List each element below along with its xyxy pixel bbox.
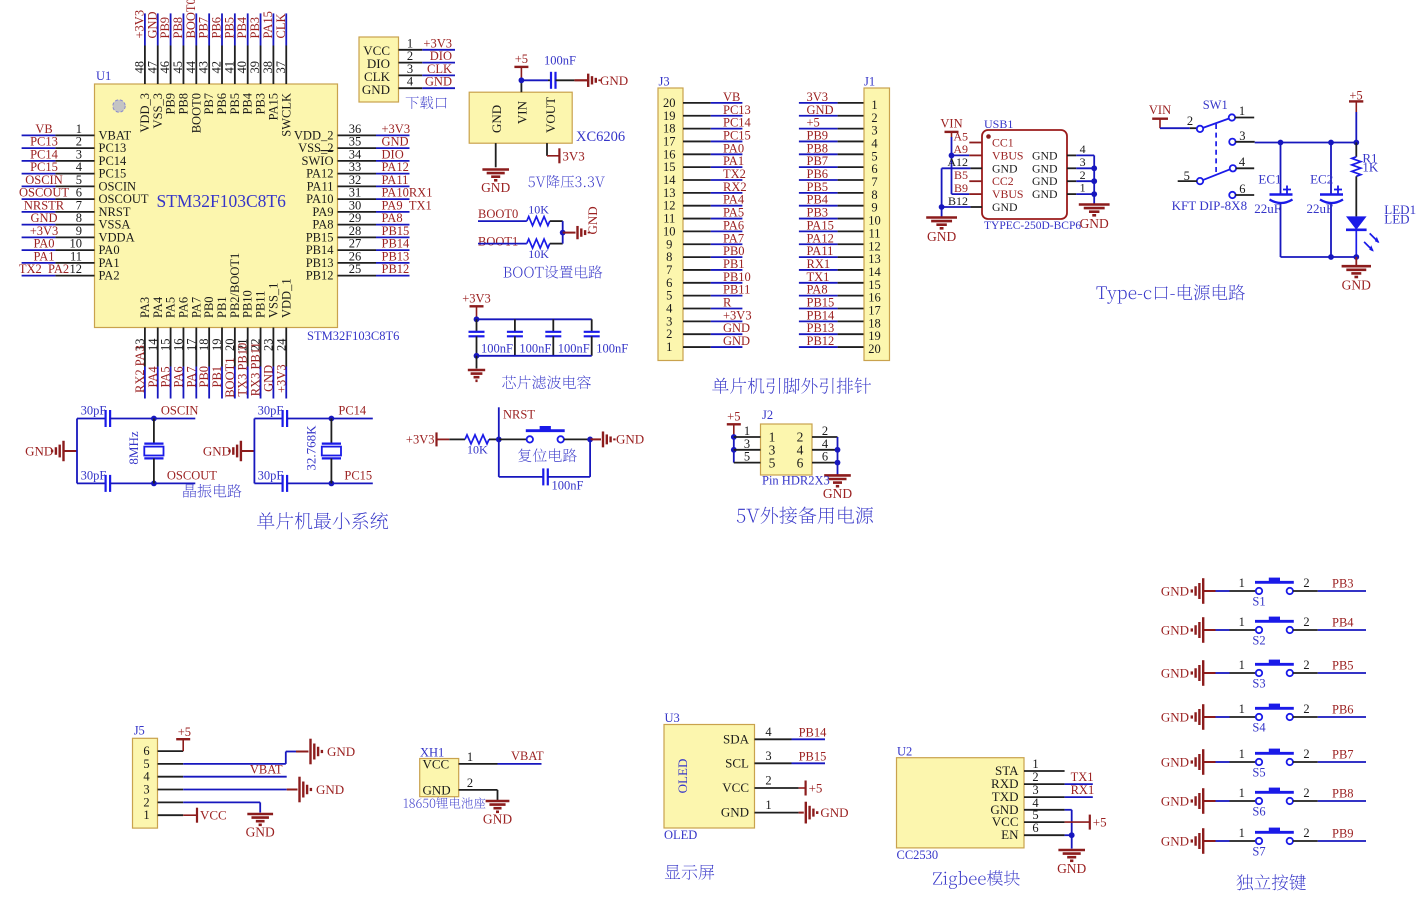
wire SW1 pin 3 to +5 rail bbox=[1235, 140, 1359, 146]
capacitor EC2 22uF bbox=[1307, 143, 1344, 258]
svg-text:GND: GND bbox=[1032, 148, 1058, 162]
connector: download port (SWD) body bbox=[359, 37, 399, 102]
USB1 pin B9 (VBUS) bbox=[954, 181, 1023, 201]
wire S7 to net PB9 bbox=[1293, 827, 1366, 842]
svg-text:4: 4 bbox=[1239, 155, 1246, 169]
module U2 CC2530 body bbox=[897, 745, 1025, 848]
wire to net OSCIN bbox=[151, 404, 198, 422]
label Pin HDR2X3 bbox=[762, 474, 830, 488]
wire crystal 32.768K left rail bbox=[253, 419, 255, 484]
U2 pin 1 wire (STA) bbox=[1024, 757, 1065, 771]
U1 pin 33 (PA12) wire, net PA12 bbox=[306, 160, 409, 181]
caption: download port bbox=[406, 96, 447, 109]
svg-text:GND: GND bbox=[483, 811, 512, 826]
svg-text:10K: 10K bbox=[528, 247, 549, 261]
U1 pin 45 (PB8) wire, net PB8 bbox=[171, 13, 191, 114]
svg-text:32.768K: 32.768K bbox=[303, 425, 318, 471]
power port +5 at U2 bbox=[1090, 815, 1107, 830]
capacitor 100nF (reset) bbox=[499, 439, 590, 492]
svg-text:PB12: PB12 bbox=[807, 334, 835, 348]
svg-text:A9: A9 bbox=[953, 142, 968, 156]
power +5 at XC6206 VIN bbox=[514, 52, 528, 80]
svg-text:4: 4 bbox=[1080, 142, 1086, 156]
svg-text:VOUT: VOUT bbox=[543, 97, 558, 133]
connector XH1 body bbox=[420, 746, 459, 798]
svg-text:VBUS: VBUS bbox=[992, 148, 1023, 162]
crystal 32.768K bbox=[303, 419, 341, 484]
svg-text:GND: GND bbox=[992, 200, 1018, 214]
svg-text:SDA: SDA bbox=[723, 731, 750, 746]
svg-text:GND: GND bbox=[1342, 278, 1371, 293]
svg-text:LED: LED bbox=[1384, 212, 1409, 227]
svg-text:SW1: SW1 bbox=[1203, 98, 1228, 112]
svg-text:KFT DIP-8X8: KFT DIP-8X8 bbox=[1172, 198, 1247, 213]
U1 pin 24 (VDD_1) wire, net +3V3 bbox=[274, 278, 293, 398]
svg-text:1: 1 bbox=[1080, 181, 1086, 195]
U2 pin 3 wire net RX1 bbox=[1024, 783, 1094, 797]
wire A12/B12 to ground bbox=[939, 168, 971, 217]
svg-text:30pF: 30pF bbox=[81, 469, 107, 483]
svg-text:2: 2 bbox=[1303, 615, 1309, 629]
svg-text:CC2: CC2 bbox=[992, 174, 1014, 188]
net label BOOT0 bbox=[478, 207, 518, 221]
svg-text:3: 3 bbox=[1239, 129, 1245, 143]
J1 pin 13 wire, net PA11 bbox=[799, 244, 881, 266]
svg-text:GND: GND bbox=[616, 432, 644, 447]
J3 pin 11 wire, net PA5 bbox=[663, 206, 744, 226]
J1 pin 16 wire, net PA8 bbox=[799, 283, 881, 305]
svg-text:4: 4 bbox=[407, 75, 414, 89]
svg-text:2: 2 bbox=[1080, 168, 1086, 182]
svg-text:PB14: PB14 bbox=[799, 725, 828, 739]
svg-text:100nF: 100nF bbox=[519, 342, 551, 356]
ground GND below XC6206 bbox=[481, 170, 510, 195]
U1 pin 10 (PA0) wire, net PA0 bbox=[22, 237, 120, 258]
J1 pin 3 wire, net +5 bbox=[799, 116, 878, 138]
USB1 pin B5 (CC2) bbox=[954, 168, 1014, 188]
wire XC6206 VOUT to 3V3 bbox=[547, 143, 559, 156]
U1 pin 34 (SWIO) wire, net DIO bbox=[302, 147, 410, 168]
U1 pin 25 (PB12) wire, net PB12 bbox=[306, 262, 410, 283]
svg-text:Pin HDR2X3: Pin HDR2X3 bbox=[762, 474, 830, 488]
power +5 at J2 bbox=[727, 409, 741, 437]
U2 pin 4 wire (GND) to EN node bbox=[1024, 796, 1072, 835]
svg-text:3: 3 bbox=[1080, 155, 1086, 169]
ground below filter caps bbox=[468, 356, 485, 381]
svg-text:+5: +5 bbox=[809, 781, 823, 796]
wire BOOT junction bbox=[560, 221, 576, 244]
wire SW1 pin 5 bbox=[1178, 180, 1197, 182]
svg-text:VBAT: VBAT bbox=[250, 763, 283, 777]
power +5 at rail bbox=[1349, 89, 1363, 143]
svg-text:3V3: 3V3 bbox=[562, 148, 584, 163]
svg-text:30pF: 30pF bbox=[258, 404, 284, 418]
svg-text:1: 1 bbox=[1239, 786, 1245, 800]
svg-text:PB6: PB6 bbox=[1332, 703, 1354, 717]
J1 pin 8 wire, net PB5 bbox=[799, 180, 878, 202]
regulator XC6206 body bbox=[469, 92, 572, 143]
svg-text:20: 20 bbox=[868, 342, 881, 356]
U1 pin 2 (PC13) wire, net PC13 bbox=[22, 135, 127, 156]
wire EC bottom rail bbox=[1281, 254, 1360, 260]
wire crystal 8MHz left rail bbox=[76, 419, 78, 484]
USB1 pin A9 (VBUS) bbox=[953, 142, 1023, 162]
wire filter bottom rail bbox=[474, 353, 592, 359]
capacitor 100nF filter #2 bbox=[507, 319, 552, 356]
svg-text:2: 2 bbox=[1303, 702, 1309, 716]
svg-text:100nF: 100nF bbox=[552, 479, 584, 493]
svg-text:+3V3: +3V3 bbox=[274, 364, 288, 393]
J1 pin 1 wire, net 3V3 bbox=[799, 90, 878, 112]
crystal 8MHz bbox=[126, 419, 164, 484]
U1 pin 43 (PB7) wire, net PB7 bbox=[197, 13, 217, 114]
wire VIN to VBUS pins bbox=[949, 137, 970, 194]
svg-text:GND: GND bbox=[1032, 161, 1058, 175]
U1 pin 12 (PA2) wire, net TX2 PA2 bbox=[19, 262, 120, 283]
U1 pin 28 (PB15) wire, net PB15 bbox=[306, 224, 410, 245]
svg-text:GND: GND bbox=[1032, 187, 1058, 201]
svg-text:GND: GND bbox=[1161, 755, 1189, 770]
svg-text:1: 1 bbox=[1032, 757, 1038, 771]
module U3 OLED body bbox=[664, 711, 755, 828]
wire S1 to net PB3 bbox=[1293, 577, 1366, 592]
svg-text:GND: GND bbox=[1032, 174, 1058, 188]
J2 pin 3 wire bbox=[734, 437, 761, 451]
J1 pin 2 wire, net GND bbox=[799, 103, 878, 125]
svg-text:+3V3: +3V3 bbox=[462, 291, 491, 305]
U3 pin 1 wire to ground bbox=[755, 798, 804, 813]
ground GND at U2 EN bbox=[1057, 850, 1086, 876]
U3 pin 4 wire net PB14 bbox=[755, 725, 828, 740]
svg-text:GND: GND bbox=[1161, 666, 1189, 681]
J3 pin 8 wire, net PB0 bbox=[666, 244, 744, 264]
svg-text:1: 1 bbox=[1239, 658, 1245, 672]
wire S5 to net PB7 bbox=[1293, 748, 1366, 763]
svg-text:PC15: PC15 bbox=[344, 469, 372, 483]
svg-text:GND: GND bbox=[316, 782, 344, 797]
wire S6 to net PB8 bbox=[1293, 787, 1366, 802]
svg-text:GND: GND bbox=[992, 161, 1018, 175]
resistor 10K (BOOT0) bbox=[478, 203, 563, 226]
J5 pin 5 wire to ground bbox=[143, 752, 308, 771]
connector USB1 body bbox=[982, 117, 1067, 219]
U1 pin 44 (BOOT0) wire, net BOOT0 bbox=[184, 0, 204, 133]
svg-text:J1: J1 bbox=[864, 75, 875, 89]
J1 pin 17 wire, net PB15 bbox=[799, 296, 881, 318]
svg-text:GND: GND bbox=[1161, 710, 1189, 725]
wire S3 to net PB5 bbox=[1293, 659, 1366, 674]
U1 pin 6 (OSCOUT) wire, net OSCOUT bbox=[19, 186, 149, 207]
U1 pin 4 (PC15) wire, net PC15 bbox=[22, 160, 127, 181]
capacitor 30pF bottom (32.768K) bbox=[254, 469, 331, 492]
svg-text:CC1: CC1 bbox=[992, 136, 1014, 150]
svg-text:5: 5 bbox=[1032, 808, 1038, 822]
label OLED bbox=[664, 828, 697, 842]
svg-text:VBUS: VBUS bbox=[992, 187, 1023, 201]
caption: reset circuit bbox=[518, 448, 577, 462]
svg-text:GND: GND bbox=[1161, 834, 1189, 849]
J3 pin 10 wire, net PA6 bbox=[663, 218, 744, 238]
svg-text:24: 24 bbox=[274, 338, 288, 351]
download port pin 4 wire, net GND bbox=[399, 75, 456, 89]
svg-text:100nF: 100nF bbox=[481, 342, 513, 356]
J5 pin 2 wire to ground bbox=[143, 795, 260, 812]
ground GND right of reset button bbox=[590, 431, 644, 447]
svg-text:OLED: OLED bbox=[675, 759, 690, 794]
U1 pin 29 (PA8) wire, net PA8 bbox=[312, 211, 409, 232]
svg-text:VIN: VIN bbox=[515, 100, 530, 124]
U1 pin 3 (PC14) wire, net PC14 bbox=[22, 147, 127, 168]
svg-text:EC2: EC2 bbox=[1310, 172, 1333, 187]
U1 pin 5 (OSCIN) wire, net OSCIN bbox=[22, 173, 136, 194]
wire to net PC15 bbox=[329, 469, 373, 487]
svg-text:VCC: VCC bbox=[200, 808, 227, 823]
download port pin 1 wire, net +3V3 bbox=[399, 36, 456, 50]
svg-text:+5: +5 bbox=[515, 52, 528, 66]
net label BOOT1 bbox=[478, 235, 518, 249]
ground GND left of USB1 bbox=[926, 218, 957, 244]
XH1 pin 2 wire to ground bbox=[459, 776, 498, 800]
svg-text:TYPEC-250D-BCP6: TYPEC-250D-BCP6 bbox=[984, 220, 1081, 232]
svg-text:PB4: PB4 bbox=[1332, 616, 1354, 630]
svg-text:2: 2 bbox=[1303, 826, 1309, 840]
U1 pin 40 (PB4) wire, net PB4 bbox=[235, 13, 255, 114]
svg-text:4: 4 bbox=[765, 725, 772, 739]
J5 pin 6 wire to +5 bbox=[143, 725, 191, 758]
svg-text:GND: GND bbox=[203, 444, 231, 459]
svg-text:S5: S5 bbox=[1252, 766, 1265, 780]
svg-text:+5: +5 bbox=[1093, 815, 1107, 830]
ground GND below LED bbox=[1342, 257, 1372, 293]
power port +5 at U3 bbox=[806, 781, 823, 796]
J3 pin 14 wire, net TX2 bbox=[663, 167, 746, 187]
svg-text:3: 3 bbox=[143, 783, 149, 797]
U1 pin 27 (PB14) wire, net PB14 bbox=[306, 237, 410, 258]
J3 pin 15 wire, net PA1 bbox=[663, 154, 744, 174]
svg-text:GND: GND bbox=[1080, 216, 1109, 231]
svg-text:2: 2 bbox=[1303, 786, 1309, 800]
svg-text:OSCOUT: OSCOUT bbox=[167, 469, 217, 483]
USB1 pin A12 (GND) bbox=[947, 155, 1018, 175]
J2 pin 4 wire bbox=[812, 437, 838, 451]
U1 pin 11 (PA1) wire, net PA1 bbox=[22, 249, 120, 270]
svg-text:VCC: VCC bbox=[423, 757, 450, 772]
U1 pin 38 (PA15) wire, net PA15 bbox=[261, 11, 281, 120]
download port pin 3 wire, net CLK bbox=[399, 62, 456, 76]
ground GND at crystal 32.768K bbox=[203, 441, 255, 461]
caption: Type-c power circuit bbox=[1096, 284, 1245, 303]
J3 pin 16 wire, net PA0 bbox=[663, 141, 744, 161]
capacitor 30pF top (8MHz) bbox=[77, 404, 154, 428]
capacitor 30pF bottom (8MHz) bbox=[77, 469, 154, 492]
svg-text:2: 2 bbox=[1303, 747, 1309, 761]
USB1 shield pin 1 (GND) bbox=[1032, 181, 1094, 201]
USB1 pin A5 (CC1) bbox=[953, 129, 1013, 149]
svg-text:VDD_1: VDD_1 bbox=[279, 278, 293, 318]
U1 pin 26 (PB13) wire, net PB13 bbox=[306, 249, 410, 270]
push button (reset) bbox=[499, 426, 590, 443]
svg-text:8MHz: 8MHz bbox=[126, 431, 141, 464]
svg-text:10K: 10K bbox=[528, 203, 549, 217]
wire to net OSCOUT bbox=[151, 469, 217, 487]
wire S2 to net PB4 bbox=[1293, 616, 1366, 631]
svg-text:1: 1 bbox=[666, 340, 672, 354]
svg-text:NRST: NRST bbox=[503, 408, 535, 422]
svg-text:PA2: PA2 bbox=[99, 269, 120, 283]
svg-text:GND: GND bbox=[723, 334, 750, 348]
J3 pin 13 wire, net RX2 bbox=[663, 180, 747, 200]
U1 pin 47 (VSS_3) wire, net GND bbox=[145, 11, 165, 128]
label TYPEC-250D-BCP6 bbox=[984, 220, 1081, 232]
XH1 pin 1 wire net VBAT bbox=[459, 749, 544, 764]
wire USB shield bus to ground bbox=[1091, 155, 1097, 204]
svg-text:1K: 1K bbox=[1362, 160, 1379, 175]
U1 pin 16 (PA6) wire, net PA6 bbox=[171, 297, 190, 399]
power VIN at SW1 bbox=[1149, 103, 1171, 128]
J2 pin 1 wire bbox=[734, 424, 761, 438]
svg-text:OLED: OLED bbox=[664, 828, 697, 842]
caption: independent buttons bbox=[1237, 874, 1306, 890]
U1 pin 23 (VSS_1) wire, net GND bbox=[261, 283, 280, 399]
svg-text:VIN: VIN bbox=[1149, 103, 1171, 117]
USB1 pin B12 (GND) bbox=[948, 194, 1018, 214]
J3 pin 5 wire, net PB11 bbox=[666, 283, 750, 303]
svg-text:U2: U2 bbox=[897, 745, 912, 759]
power VIN at USB bbox=[940, 117, 962, 138]
J1 pin 7 wire, net PB6 bbox=[799, 167, 878, 189]
U3 pin 3 wire net PB15 bbox=[755, 749, 827, 764]
svg-text:1: 1 bbox=[1239, 747, 1245, 761]
J1 pin 10 wire, net PB3 bbox=[799, 206, 881, 228]
power port +3V3 (reset) bbox=[406, 432, 449, 446]
svg-text:PB3: PB3 bbox=[1332, 577, 1354, 591]
U1 pin 30 (PA9) wire, net PA9 TX1 bbox=[312, 198, 431, 219]
ground GND at S4 bbox=[1161, 704, 1216, 730]
svg-text:+5: +5 bbox=[178, 725, 191, 739]
U1 pin 17 (PA7) wire, net PA7 bbox=[184, 297, 203, 399]
net NRST stub bbox=[499, 407, 536, 439]
ground GND at S7 bbox=[1161, 828, 1216, 854]
svg-text:GND: GND bbox=[1161, 794, 1189, 809]
U1 pin 42 (PB6) wire, net PB6 bbox=[210, 13, 230, 114]
push button S3 bbox=[1216, 658, 1310, 691]
op-amp U1 STM32F103C8T6 chip body bbox=[95, 69, 400, 343]
svg-text:3: 3 bbox=[765, 749, 771, 763]
power port VCC bbox=[197, 808, 227, 823]
J3 pin 7 wire, net PB1 bbox=[666, 257, 744, 277]
J3 pin 12 wire, net PA4 bbox=[663, 193, 745, 213]
J3 pin 3 wire, net +3V3 bbox=[666, 308, 751, 328]
ground GND right of 100nF bbox=[574, 73, 628, 88]
power port 3V3 bbox=[559, 148, 584, 163]
U2 pin 2 wire net TX1 bbox=[1024, 770, 1094, 784]
svg-text:VCC: VCC bbox=[722, 780, 749, 795]
J3 pin 18 wire, net PC14 bbox=[663, 116, 751, 136]
svg-text:GND: GND bbox=[600, 73, 628, 88]
J5 pin 3 wire to ground bbox=[143, 783, 297, 797]
J1 pin 12 wire, net PA12 bbox=[799, 231, 881, 253]
push button S1 bbox=[1216, 576, 1310, 609]
J3 pin 4 wire, net R bbox=[666, 296, 742, 316]
svg-text:GND: GND bbox=[327, 744, 355, 759]
wire SW1 pin 1 bbox=[1235, 117, 1254, 119]
ground GND at S5 bbox=[1161, 749, 1216, 775]
ground GND at BOOT divider bbox=[578, 206, 601, 239]
capacitor 100nF filter #4 bbox=[584, 319, 629, 356]
U1 pin 46 (PB9) wire, net PB9 bbox=[158, 13, 178, 114]
svg-text:S6: S6 bbox=[1252, 805, 1265, 819]
U1 pin 22 (PB11) wire, net RX3 PB11 bbox=[249, 291, 268, 399]
svg-text:22uF: 22uF bbox=[1254, 201, 1281, 216]
wire VIN to SW1 pin 2 bbox=[1160, 127, 1197, 129]
svg-text:+3V3: +3V3 bbox=[406, 433, 435, 447]
ground GND below J5 pin 2 bbox=[246, 814, 275, 839]
J3 pin 17 wire, net PC15 bbox=[663, 128, 751, 148]
svg-text:12: 12 bbox=[70, 262, 83, 276]
connector J3 body bbox=[658, 75, 683, 361]
J5 pin 4 wire net VBAT bbox=[143, 763, 286, 784]
push button S4 bbox=[1216, 702, 1310, 735]
svg-text:SWCLK: SWCLK bbox=[279, 93, 293, 137]
download port pin 2 wire, net DIO bbox=[399, 49, 456, 63]
caption: crystal circuit bbox=[183, 484, 241, 498]
ground GND at U3 bbox=[806, 802, 849, 824]
node junction reset right bbox=[587, 437, 593, 443]
wire S4 to net PB6 bbox=[1293, 703, 1366, 718]
svg-text:GND: GND bbox=[423, 783, 451, 798]
U1 pin 20 (PB2/BOOT1) wire, net BOOT1 bbox=[223, 253, 242, 399]
USB1 shield pin 3 (GND) bbox=[1032, 155, 1094, 175]
caption: display bbox=[665, 865, 714, 880]
connector J1 body bbox=[864, 75, 890, 361]
U1 pin 36 (VDD_2) wire, net +3V3 bbox=[294, 122, 410, 143]
svg-text:100nF: 100nF bbox=[596, 342, 628, 356]
resistor 10K (BOOT1) bbox=[478, 239, 563, 261]
U1 pin 9 (VDDA) wire, net +3V3 bbox=[22, 224, 135, 245]
svg-text:BOOT0: BOOT0 bbox=[478, 207, 518, 221]
svg-text:100nF: 100nF bbox=[544, 54, 576, 68]
svg-text:PC14: PC14 bbox=[338, 404, 367, 418]
svg-text:PB7: PB7 bbox=[1332, 748, 1354, 762]
J1 pin 5 wire, net PB8 bbox=[799, 141, 878, 163]
ground GND at S2 bbox=[1161, 617, 1216, 643]
svg-text:GND: GND bbox=[1057, 861, 1086, 876]
U1 pin 13 (PA3) wire, net RX2 PA3 bbox=[133, 297, 152, 399]
wire VIN node bbox=[519, 77, 549, 92]
svg-text:30pF: 30pF bbox=[258, 469, 284, 483]
svg-text:GND: GND bbox=[246, 824, 275, 839]
J1 pin 20 wire, net PB12 bbox=[799, 334, 881, 356]
svg-text:U1: U1 bbox=[96, 69, 111, 83]
svg-text:GND: GND bbox=[425, 75, 452, 89]
U1 pin 1 (VBAT) wire, net VB bbox=[22, 122, 132, 143]
power +3V3 at filter caps bbox=[462, 291, 491, 319]
caption: BOOT setting circuit bbox=[503, 265, 602, 278]
svg-text:TX2 PA2: TX2 PA2 bbox=[19, 262, 69, 276]
svg-text:1: 1 bbox=[467, 750, 473, 764]
caption: 5V step-down 3.3V bbox=[528, 175, 604, 188]
svg-text:S7: S7 bbox=[1252, 845, 1265, 859]
wire XC6206 GND pin to ground bbox=[495, 143, 497, 167]
J2 pin 6 wire bbox=[812, 450, 838, 464]
svg-text:PB12: PB12 bbox=[306, 269, 334, 283]
svg-text:S2: S2 bbox=[1252, 634, 1265, 648]
capacitor 100nF at VIN bbox=[544, 54, 576, 89]
svg-text:GND: GND bbox=[1161, 584, 1189, 599]
svg-text:STM32F103C8T6: STM32F103C8T6 bbox=[307, 329, 399, 343]
svg-text:2: 2 bbox=[1303, 576, 1309, 590]
svg-text:OSCIN: OSCIN bbox=[161, 404, 199, 418]
